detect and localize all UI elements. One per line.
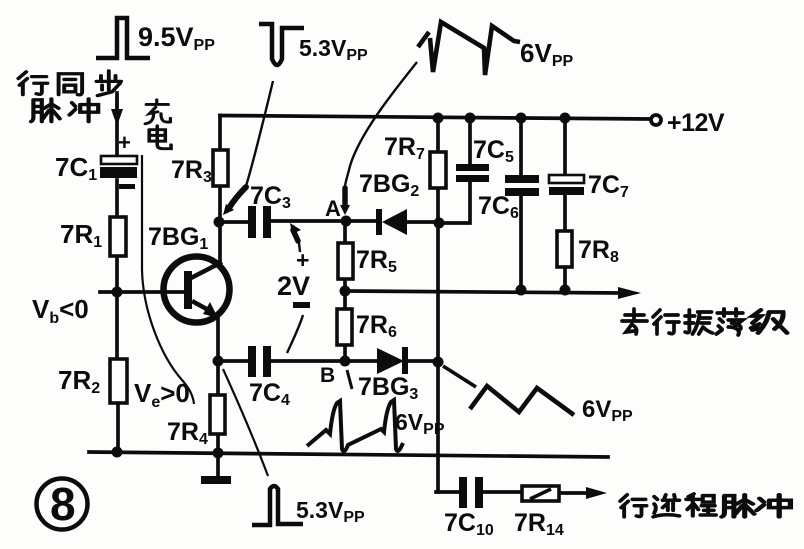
svg-text:7C3: 7C3 <box>250 182 291 212</box>
leader emitter to 5.3Vpp bottom <box>223 369 268 476</box>
wire 7C4 to node B <box>270 359 345 363</box>
svg-text:7R8: 7R8 <box>578 236 619 266</box>
wire 7R4 top lead <box>216 361 220 395</box>
wire 7R8 bottom lead <box>563 267 567 291</box>
svg-text:7C10: 7C10 <box>444 509 494 539</box>
svg-text:6VPP: 6VPP <box>582 396 633 425</box>
wire +12V rail top <box>220 116 650 120</box>
arrow output to oscillator <box>618 287 641 299</box>
svg-text:7R5: 7R5 <box>356 246 397 276</box>
wire base node to 7R2 <box>115 292 119 359</box>
waveform pulse 5.3Vpp top inverted <box>259 24 304 65</box>
capacitor 7C4 <box>248 346 271 377</box>
wire diode 7BG3 to bus <box>408 359 438 363</box>
wire 7C7 to 7R8 <box>563 195 567 231</box>
wire 7R5 top lead <box>343 221 347 243</box>
waveform pulse 9.5Vpp <box>96 18 150 58</box>
svg-text:7C1: 7C1 <box>55 152 97 184</box>
wire vertical bus x438 mid <box>436 188 440 362</box>
resistor 7R1 <box>110 217 126 256</box>
figure number 8 circled <box>37 479 88 530</box>
wire 7C7 top lead <box>563 118 567 174</box>
resistor 7R7 <box>430 152 446 188</box>
svg-text:8: 8 <box>50 478 76 530</box>
leader 6Vpp top to node A <box>345 62 417 187</box>
input arrow down <box>115 95 118 108</box>
wire collector node to 7C3 <box>219 220 249 224</box>
svg-text:5.3VPP: 5.3VPP <box>296 497 365 526</box>
label 7BG1 leader from 充电 <box>142 155 194 404</box>
wire retrace branch <box>436 490 459 494</box>
svg-text:7R2: 7R2 <box>58 365 100 397</box>
ground <box>201 476 231 484</box>
arrow retrace output <box>586 487 607 499</box>
svg-text:7R3: 7R3 <box>171 156 212 186</box>
label 行逆程脉冲 (line retrace pulse) <box>620 494 790 517</box>
waveform sawtooth 6Vpp output <box>470 386 574 415</box>
terminal +12V <box>651 115 661 125</box>
wire emitter node to 7C4 <box>218 359 248 363</box>
wire 7R1 to base node <box>115 256 119 292</box>
capacitor 7C1 electrolytic <box>55 130 137 189</box>
resistor 7R3 <box>213 150 228 186</box>
transistor 7BG1 <box>164 257 230 323</box>
wire vertical bus x438 top <box>436 118 440 152</box>
label 行同步 (line sync) <box>18 71 121 96</box>
capacitor 7C5 <box>456 164 489 182</box>
wire 7C3 to node A <box>271 219 346 223</box>
wire collector vertical <box>218 222 222 263</box>
resistor 7R14 horizontal with slash <box>522 486 559 501</box>
wire bottom rail <box>89 452 608 457</box>
svg-text:7BG1: 7BG1 <box>148 223 208 253</box>
resistor 7R6 <box>337 309 352 345</box>
wire 7R5 bottom lead <box>343 279 347 291</box>
svg-text:7R14: 7R14 <box>514 509 564 539</box>
wire emitter vertical <box>216 316 220 361</box>
capacitor 7C3 <box>248 206 271 238</box>
wire node A to diode 7BG2 <box>346 219 378 223</box>
svg-text:6VPP: 6VPP <box>520 38 573 70</box>
wire 7C5 bottom L to bus <box>440 182 470 223</box>
diode 7BG3 pointing right <box>377 347 408 374</box>
wire 7R3 top lead <box>218 116 222 151</box>
label 充电 (charging) <box>145 100 171 149</box>
wire node B to diode 7BG3 <box>345 359 378 363</box>
waveform sawtooth 6Vpp top <box>418 22 520 75</box>
wire 7R6 bottom lead <box>343 345 347 361</box>
wire 7R3 bottom lead <box>218 185 222 222</box>
wire 7C6 bottom lead <box>519 196 523 290</box>
wire 7R14 to arrow <box>559 491 588 495</box>
waveform pulse 5.3Vpp bottom <box>252 486 303 525</box>
diode 7BG2 pointing left <box>376 209 407 235</box>
svg-text:7R7: 7R7 <box>384 133 425 163</box>
resistor 7R4 <box>210 395 225 434</box>
svg-text:A: A <box>325 196 341 221</box>
capacitor 7C6 <box>505 175 539 196</box>
resistor 7R8 <box>557 231 572 267</box>
leader 5.3Vpp to collector node <box>246 81 273 186</box>
wire vertical bus x438 low <box>436 362 440 492</box>
svg-text:2V: 2V <box>277 271 310 301</box>
svg-text:7R4: 7R4 <box>167 418 208 448</box>
svg-text:7C5: 7C5 <box>473 136 514 166</box>
svg-text:7BG3: 7BG3 <box>358 373 418 403</box>
capacitor 7C10 <box>459 477 483 508</box>
leader bus node to output sawtooth <box>443 366 476 387</box>
label 脉冲 (pulse) <box>31 99 98 122</box>
wire output row to arrow <box>345 291 622 293</box>
leader 2V plus to wire <box>299 243 300 252</box>
svg-text:7C7: 7C7 <box>588 171 629 201</box>
wire diode 7BG2 to vertical bus <box>406 220 438 224</box>
resistor 7R5 <box>338 243 353 279</box>
leader node B to emitter waveform <box>347 370 352 389</box>
svg-text:7R6: 7R6 <box>356 311 397 341</box>
svg-text:B: B <box>320 364 335 387</box>
wire 7R6 top lead <box>343 291 347 309</box>
svg-text:Ve>0: Ve>0 <box>134 378 190 411</box>
svg-text:+: + <box>118 130 131 155</box>
label 2V with polarity <box>277 247 310 301</box>
svg-text:7C4: 7C4 <box>249 379 290 409</box>
wire 7C10 to 7R14 <box>483 490 522 494</box>
svg-text:7C6: 7C6 <box>478 192 519 222</box>
wire 7R4 bottom lead <box>216 434 220 476</box>
wire 7C6 top lead <box>519 118 523 175</box>
label 去行振荡级 (to line oscillator stage) <box>622 309 787 335</box>
svg-text:7BG2: 7BG2 <box>359 170 419 200</box>
svg-text:5.3VPP: 5.3VPP <box>299 35 368 64</box>
wire 7C5 top lead <box>468 118 472 164</box>
wire base line <box>100 290 183 294</box>
resistor 7R2 <box>110 359 127 403</box>
wire 7R2 to bottom rail <box>116 403 120 453</box>
capacitor 7C7 electrolytic <box>549 175 584 195</box>
svg-text:7R1: 7R1 <box>60 219 102 251</box>
leader 2V minus to B wire <box>287 315 303 353</box>
wire input column top <box>115 93 119 155</box>
svg-text:+: + <box>296 247 309 273</box>
wire 7C1 to 7R1 <box>115 180 119 217</box>
svg-text:+12V: +12V <box>667 109 725 137</box>
svg-text:Vb<0: Vb<0 <box>32 294 89 327</box>
waveform sawtooth 6Vpp emitter <box>307 400 403 451</box>
svg-text:9.5VPP: 9.5VPP <box>138 22 215 54</box>
